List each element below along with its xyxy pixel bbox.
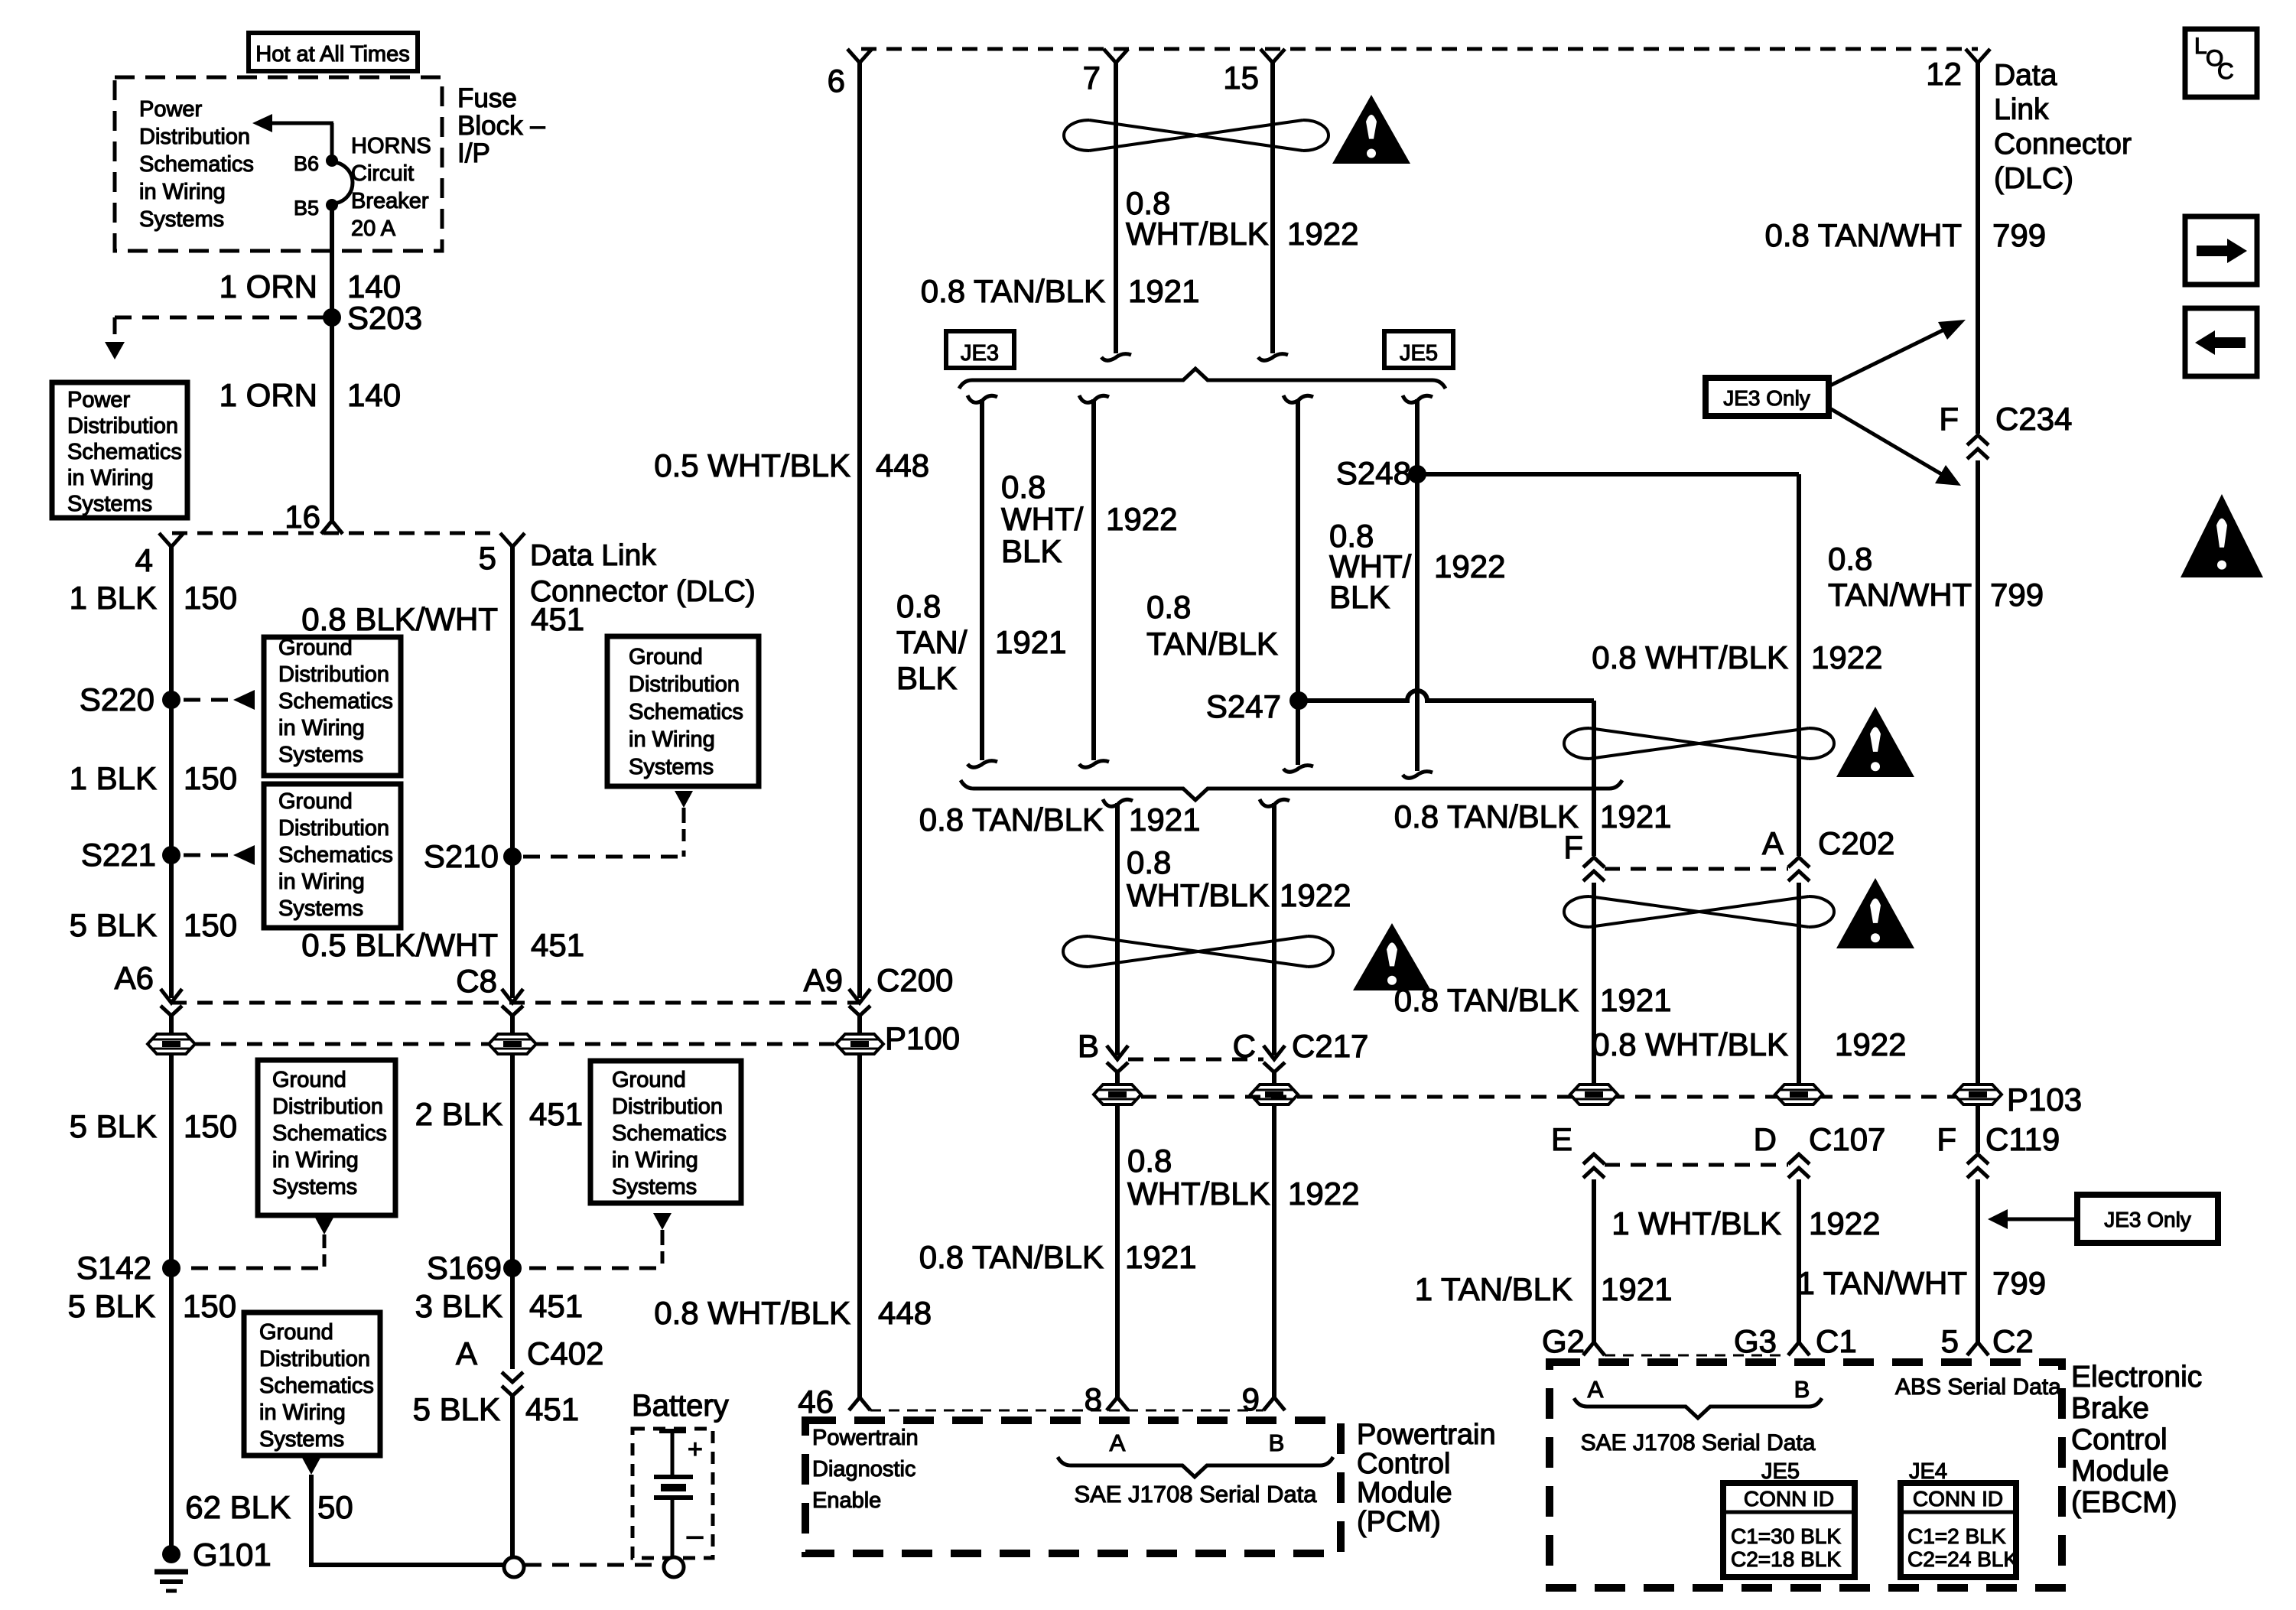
wire: D below C107 to EBCM G3 xyxy=(1797,1179,1801,1343)
svg-text:Distribution: Distribution xyxy=(278,816,389,841)
dashed link to S169 xyxy=(661,1251,665,1268)
svg-text:1921: 1921 xyxy=(1125,1239,1196,1275)
svg-text:C107: C107 xyxy=(1809,1121,1885,1157)
svg-text:0.8 WHT/BLK: 0.8 WHT/BLK xyxy=(654,1295,850,1331)
svg-text:in Wiring: in Wiring xyxy=(272,1148,359,1173)
svg-text:Ground: Ground xyxy=(259,1320,333,1345)
splice S169 xyxy=(503,1259,522,1277)
splice S248 xyxy=(1408,465,1426,483)
callout box: JE3 Only (right) xyxy=(2077,1195,2218,1243)
svg-text:TAN/BLK: TAN/BLK xyxy=(1146,626,1278,662)
wire: dashed from S220 to ground ref xyxy=(184,698,229,702)
pass-through line P100 (dashed) xyxy=(195,1042,860,1046)
splice pack JE5 label box xyxy=(1384,331,1453,368)
svg-text:A: A xyxy=(1762,825,1784,861)
svg-text:0.8 BLK/WHT: 0.8 BLK/WHT xyxy=(301,601,498,637)
component box: Powertrain Control Module (dashed) xyxy=(805,1420,1341,1553)
svg-text:0.8: 0.8 xyxy=(1127,844,1171,880)
svg-text:140: 140 xyxy=(347,377,401,413)
svg-text:451: 451 xyxy=(525,1391,579,1427)
svg-text:1922: 1922 xyxy=(1811,639,1882,675)
svg-text:Schematics: Schematics xyxy=(272,1121,387,1146)
pin 9 connector at PCM xyxy=(1263,1397,1285,1410)
warning symbol (B/C) xyxy=(1353,923,1431,990)
twisted pair symbol (E/D below C202) xyxy=(1589,896,1809,927)
warning symbol (above C202) xyxy=(1836,707,1914,777)
connector C217 pin C arrow xyxy=(1263,1046,1285,1059)
ground G101 xyxy=(162,1545,180,1563)
connector C200 pin A6 arrow xyxy=(161,989,182,1003)
svg-text:Systems: Systems xyxy=(629,755,714,779)
terminal B5 dot xyxy=(326,199,338,211)
svg-text:in Wiring: in Wiring xyxy=(259,1400,346,1425)
svg-text:0.8 TAN/BLK: 0.8 TAN/BLK xyxy=(921,273,1105,309)
svg-text:BLK: BLK xyxy=(1329,579,1390,615)
svg-text:7: 7 xyxy=(1083,60,1101,96)
svg-text:in Wiring: in Wiring xyxy=(67,466,154,490)
svg-text:S169: S169 xyxy=(427,1250,502,1286)
svg-text:C202: C202 xyxy=(1818,825,1894,861)
svg-text:Module: Module xyxy=(1357,1477,1452,1509)
wire: 1 ORN 140 from B5 down to pin 16 xyxy=(330,205,334,523)
svg-text:Schematics: Schematics xyxy=(67,440,182,464)
svg-text:S247: S247 xyxy=(1206,688,1281,724)
svg-text:in Wiring: in Wiring xyxy=(629,727,715,752)
svg-text:C1=30 BLK: C1=30 BLK xyxy=(1731,1524,1841,1548)
svg-text:Powertrain: Powertrain xyxy=(1357,1419,1496,1451)
svg-text:C: C xyxy=(2217,59,2234,84)
svg-text:0.8 TAN/BLK: 0.8 TAN/BLK xyxy=(919,1239,1104,1275)
pin 7 receptacle Y xyxy=(1104,49,1128,63)
dashed wire: junction to battery negative xyxy=(525,1563,661,1567)
svg-text:G101: G101 xyxy=(193,1537,272,1573)
svg-text:E: E xyxy=(1551,1121,1572,1157)
svg-text:0.8 WHT/BLK: 0.8 WHT/BLK xyxy=(1592,1026,1788,1062)
wire: D below C202 xyxy=(1797,883,1801,1085)
svg-text:1921: 1921 xyxy=(1600,982,1671,1018)
svg-text:5 BLK: 5 BLK xyxy=(70,907,157,943)
svg-text:Systems: Systems xyxy=(612,1175,697,1199)
connector C402 (double chevron) xyxy=(502,1372,523,1382)
svg-text:C1: C1 xyxy=(1816,1323,1857,1359)
reference box: Ground Distribution Schematics (2) xyxy=(264,784,401,928)
svg-text:B: B xyxy=(1269,1429,1285,1456)
hook: sub-wire 3 top xyxy=(1283,395,1313,402)
hook: sub-wire 1 top xyxy=(968,395,997,402)
arrow: into S220 (points left) xyxy=(233,690,255,710)
svg-text:SAE J1708 Serial Data: SAE J1708 Serial Data xyxy=(1581,1430,1816,1456)
callout arrow down to wire below C234 xyxy=(1829,408,1944,476)
svg-text:62 BLK: 62 BLK xyxy=(185,1489,291,1525)
splice S142 xyxy=(162,1259,180,1277)
connector C234 chevrons xyxy=(1967,435,1989,445)
svg-text:Powertrain: Powertrain xyxy=(812,1426,919,1450)
svg-text:150: 150 xyxy=(184,580,237,616)
splice pack bus brace (bottom) xyxy=(961,780,1622,800)
svg-text:S220: S220 xyxy=(80,681,154,717)
connector C202 chevrons (E) xyxy=(1583,857,1605,867)
svg-text:0.8: 0.8 xyxy=(896,588,941,624)
svg-text:Power: Power xyxy=(67,388,131,412)
svg-text:1922: 1922 xyxy=(1287,216,1358,252)
svg-text:Block –: Block – xyxy=(457,111,545,141)
svg-text:in Wiring: in Wiring xyxy=(612,1148,698,1173)
arrow: from ground ref box 4 down xyxy=(675,791,693,808)
svg-text:Distribution: Distribution xyxy=(278,662,389,687)
svg-text:9: 9 xyxy=(1242,1381,1260,1417)
svg-text:5: 5 xyxy=(1941,1323,1959,1359)
svg-text:1921: 1921 xyxy=(995,624,1066,660)
battery symbol xyxy=(659,1429,686,1433)
svg-text:Schematics: Schematics xyxy=(629,700,743,724)
pin 46 connector at PCM xyxy=(849,1397,870,1410)
brace: SAE J1708 pins (EBCM) xyxy=(1574,1398,1822,1418)
svg-text:451: 451 xyxy=(529,1096,583,1132)
pin G3 connector at EBCM xyxy=(1788,1342,1810,1355)
svg-text:Distribution: Distribution xyxy=(259,1347,370,1371)
svg-text:451: 451 xyxy=(529,1288,583,1324)
connector line C202 (dashed) xyxy=(1605,867,1788,871)
svg-text:Data: Data xyxy=(1994,59,2057,92)
hook: wire 7 end xyxy=(1101,354,1131,361)
hook: sub-wire 2 top xyxy=(1079,395,1109,402)
connector line PCM pins (thin dashed) xyxy=(870,1410,1263,1412)
svg-text:BLK: BLK xyxy=(1001,533,1062,569)
wire: B below C217 xyxy=(1115,1072,1120,1398)
connector C217 pin B arrow xyxy=(1107,1046,1128,1059)
svg-text:JE3 Only: JE3 Only xyxy=(2104,1208,2191,1231)
svg-text:Schematics: Schematics xyxy=(139,152,254,177)
svg-text:1922: 1922 xyxy=(1280,877,1351,913)
svg-text:Fuse: Fuse xyxy=(457,83,517,113)
wire: S248 tap to right (1922) xyxy=(1417,472,1799,476)
connector line C200 (dashed) xyxy=(171,1001,860,1005)
pass-through P103 grommet on F wire xyxy=(1954,1085,2002,1104)
svg-text:4: 4 xyxy=(135,542,153,578)
svg-text:Systems: Systems xyxy=(139,207,224,232)
svg-text:Schematics: Schematics xyxy=(278,843,393,867)
wire: S247 tap to right with crossover hop at JE5-B wire xyxy=(1299,691,1594,701)
svg-text:Breaker: Breaker xyxy=(351,189,429,213)
arrow: from ground ref box 5 down xyxy=(653,1213,672,1230)
svg-text:1 ORN: 1 ORN xyxy=(220,377,317,413)
arrow: into S221 (points left) xyxy=(233,845,255,865)
pass-through P100 grommet on pin6 wire xyxy=(836,1034,883,1054)
svg-text:2 BLK: 2 BLK xyxy=(415,1096,502,1132)
svg-text:Systems: Systems xyxy=(278,743,363,767)
svg-text:Circuit: Circuit xyxy=(351,161,414,186)
svg-text:CONN ID: CONN ID xyxy=(1744,1487,1834,1511)
svg-text:C200: C200 xyxy=(876,962,953,998)
svg-text:1922: 1922 xyxy=(1288,1176,1359,1212)
svg-text:A9: A9 xyxy=(804,962,843,998)
wire: pin 15 down to splice pack xyxy=(1270,63,1275,353)
svg-text:C1=2 BLK: C1=2 BLK xyxy=(1907,1524,2006,1548)
svg-text:5: 5 xyxy=(479,540,496,576)
hook: B wire top xyxy=(1103,799,1133,806)
svg-text:Schematics: Schematics xyxy=(612,1121,727,1146)
arrow: from ground ref box 6 down xyxy=(302,1458,320,1475)
pass-through grommet on C wire xyxy=(1250,1085,1298,1104)
svg-text:16: 16 xyxy=(285,499,320,535)
connector C107 chevrons (E) xyxy=(1583,1154,1605,1164)
arrow: from ground ref box 3 down xyxy=(315,1218,333,1234)
svg-text:C402: C402 xyxy=(527,1335,603,1371)
svg-text:799: 799 xyxy=(1992,217,2046,253)
svg-text:150: 150 xyxy=(184,760,237,796)
svg-text:0.8 TAN/BLK: 0.8 TAN/BLK xyxy=(1394,798,1579,834)
svg-text:C234: C234 xyxy=(1995,401,2072,437)
hook: sub-wire 2 bottom xyxy=(1079,761,1109,768)
svg-text:A6: A6 xyxy=(115,960,154,996)
svg-text:C8: C8 xyxy=(456,963,497,999)
svg-text:C217: C217 xyxy=(1292,1028,1368,1064)
pass-through grommet on B wire xyxy=(1094,1085,1141,1104)
wire stub below ground ref 3 xyxy=(323,1234,327,1248)
svg-text:Battery: Battery xyxy=(632,1389,729,1423)
pass-through P103 grommet on E wire xyxy=(1570,1085,1618,1104)
wire: 1 TAN/WHT 799 to EBCM xyxy=(1976,1179,1980,1343)
svg-text:150: 150 xyxy=(184,1108,237,1144)
svg-text:1922: 1922 xyxy=(1434,548,1505,584)
svg-text:1 TAN/BLK: 1 TAN/BLK xyxy=(1415,1271,1572,1307)
wire: 0.8 TAN/BLK 1921 (JE3 A) xyxy=(980,399,984,760)
brace: SAE J1708 pins (PCM) xyxy=(1058,1457,1333,1477)
callout box: JE3 Only (top) xyxy=(1706,378,1829,416)
wire: C below C217 xyxy=(1272,1072,1276,1398)
dashed link to S210 xyxy=(682,829,686,857)
svg-text:0.8: 0.8 xyxy=(1146,589,1191,625)
svg-text:(PCM): (PCM) xyxy=(1357,1506,1441,1538)
legend: warning symbol xyxy=(2181,494,2263,577)
svg-text:Link: Link xyxy=(1994,93,2049,126)
svg-text:Schematics: Schematics xyxy=(278,689,393,714)
svg-text:Data Link: Data Link xyxy=(530,539,656,572)
pass-through line P103 (dashed) xyxy=(1141,1095,1978,1099)
svg-text:Enable: Enable xyxy=(812,1488,881,1513)
svg-text:1921: 1921 xyxy=(1600,798,1671,834)
wire: horizontal to Power Distribution arrow xyxy=(268,122,333,125)
dashed link to S142 xyxy=(323,1254,327,1268)
splice S247 xyxy=(1289,691,1308,710)
svg-text:1922: 1922 xyxy=(1106,501,1177,537)
svg-text:in Wiring: in Wiring xyxy=(278,870,365,894)
svg-text:Distribution: Distribution xyxy=(629,672,740,697)
svg-text:Electronic: Electronic xyxy=(2071,1361,2202,1394)
wire: F below P103 xyxy=(1976,1105,1980,1153)
svg-text:Ground: Ground xyxy=(272,1068,346,1092)
wire: D drop from S248 to C202 xyxy=(1797,474,1801,856)
svg-text:Systems: Systems xyxy=(272,1175,357,1199)
splice S203 xyxy=(323,308,341,327)
wire: dashed branch from S203 to power distribution ref xyxy=(115,316,324,320)
svg-text:A: A xyxy=(1110,1429,1126,1456)
table: JE4 CONN ID xyxy=(1901,1483,2016,1577)
svg-text:451: 451 xyxy=(531,601,584,637)
svg-text:Hot at All Times: Hot at All Times xyxy=(255,42,409,67)
circuit breaker: HORNS Circuit Breaker 20 A (arc) xyxy=(332,162,353,203)
wire: 62 BLK 50 down and right to junction xyxy=(311,1475,504,1565)
wire: pin 7 down to splice pack xyxy=(1114,63,1118,353)
callout arrow up to wire above C234 xyxy=(1829,327,1949,386)
svg-text:448: 448 xyxy=(876,447,929,483)
svg-text:F: F xyxy=(1563,829,1583,865)
svg-text:Systems: Systems xyxy=(259,1427,344,1452)
svg-text:TAN/WHT: TAN/WHT xyxy=(1828,577,1972,613)
svg-text:0.8: 0.8 xyxy=(1001,469,1046,505)
svg-text:5 BLK: 5 BLK xyxy=(413,1391,500,1427)
svg-text:5 BLK: 5 BLK xyxy=(70,1108,157,1144)
svg-text:HORNS: HORNS xyxy=(351,134,431,158)
svg-text:C2=18 BLK: C2=18 BLK xyxy=(1731,1547,1841,1571)
svg-text:Brake: Brake xyxy=(2071,1392,2149,1425)
twisted pair symbol (B/C) xyxy=(1088,936,1308,967)
splice S220 xyxy=(162,691,180,709)
svg-text:Ground: Ground xyxy=(278,789,353,814)
svg-text:A: A xyxy=(456,1335,477,1371)
reference box: Ground Distribution Schematics (6, bottom) xyxy=(244,1312,380,1456)
callout arrow to F wire xyxy=(2005,1218,2077,1221)
wire: breaker feed up from B6 to arrow xyxy=(330,123,334,158)
svg-text:WHT/: WHT/ xyxy=(1001,501,1084,537)
svg-text:B: B xyxy=(1794,1376,1810,1403)
svg-text:451: 451 xyxy=(531,927,584,963)
wire: 0.8 TAN/BLK 1921 (JE5 A) xyxy=(1296,399,1300,765)
wire: 1 BLK 150 pin4 down to A6 (C200) xyxy=(169,547,174,998)
wire: 0.8 TAN/WHT 799 pin12 to C234 xyxy=(1976,63,1980,434)
svg-text:6: 6 xyxy=(828,63,845,99)
svg-text:I/P: I/P xyxy=(457,138,490,168)
connector C200 pin A9 arrow xyxy=(849,989,870,1003)
wire: E below C107 to EBCM G2 xyxy=(1592,1179,1596,1343)
svg-text:B6: B6 xyxy=(294,152,319,175)
svg-text:Power: Power xyxy=(139,97,203,122)
svg-text:0.8: 0.8 xyxy=(1828,541,1872,577)
terminal: battery negative open circle xyxy=(664,1557,684,1577)
svg-text:0.8 TAN/BLK: 0.8 TAN/BLK xyxy=(919,802,1104,838)
reference box: Ground Distribution Schematics (4, right of pin 5) xyxy=(607,636,759,786)
twisted pair symbol (E/D above C202) xyxy=(1589,728,1809,759)
wire: 0.5 WHT/BLK 448 pin6 to C200 xyxy=(857,63,862,998)
svg-text:Connector: Connector xyxy=(1994,128,2132,161)
svg-text:JE3 Only: JE3 Only xyxy=(1723,386,1810,410)
svg-text:0.5 WHT/BLK: 0.5 WHT/BLK xyxy=(654,447,850,483)
pin 12 receptacle Y xyxy=(1966,49,1990,63)
svg-text:Ground: Ground xyxy=(278,636,353,660)
svg-text:Systems: Systems xyxy=(278,896,363,921)
svg-text:12: 12 xyxy=(1926,56,1962,92)
reference box: Power Distribution Schematics in Wiring Systems xyxy=(52,382,187,518)
svg-text:20 A: 20 A xyxy=(351,216,396,241)
pin 6 receptacle Y xyxy=(847,49,872,63)
component box: Electronic Brake Control Module (dashed) xyxy=(1550,1362,2062,1588)
pass-through P100 grommet on pin5 wire xyxy=(489,1034,536,1054)
svg-text:1921: 1921 xyxy=(1601,1271,1672,1307)
component box: Fuse Block - I/P (dashed) xyxy=(115,77,442,251)
svg-text:Module: Module xyxy=(2071,1455,2169,1488)
svg-text:Ground: Ground xyxy=(629,645,703,669)
svg-text:CONN ID: CONN ID xyxy=(1913,1487,2003,1511)
svg-text:P103: P103 xyxy=(2007,1081,2082,1117)
splice pack bus brace (top) xyxy=(959,369,1446,389)
wire: 5 BLK 451 below C402 xyxy=(510,1397,515,1557)
junction: open circle at battery feed xyxy=(504,1557,524,1577)
connector C202 chevrons (D) xyxy=(1788,857,1810,867)
table: JE5 CONN ID xyxy=(1723,1483,1855,1577)
wire stub below ground ref 5 xyxy=(661,1230,665,1245)
svg-text:C119: C119 xyxy=(1985,1121,2060,1157)
svg-text:G2: G2 xyxy=(1542,1323,1585,1359)
wire: 0.8 TAN/WHT 799 below C234 xyxy=(1976,460,1980,1085)
pass-through P103 grommet on D wire xyxy=(1775,1085,1823,1104)
svg-text:–: – xyxy=(687,1520,704,1552)
connector C107 chevrons (D) xyxy=(1788,1154,1810,1164)
svg-text:B5: B5 xyxy=(294,197,319,220)
svg-text:Distribution: Distribution xyxy=(67,414,178,438)
hook: sub-wire 3 bottom xyxy=(1283,766,1313,772)
pin 8 connector at PCM xyxy=(1107,1397,1128,1410)
connector line C107 (dashed) xyxy=(1605,1163,1788,1167)
svg-text:3 BLK: 3 BLK xyxy=(415,1288,502,1324)
reference box: Ground Distribution Schematics (3) xyxy=(258,1060,395,1215)
svg-text:Control: Control xyxy=(2071,1423,2168,1456)
arrow: down to Power Distribution Schematics box xyxy=(105,342,125,359)
svg-text:(EBCM): (EBCM) xyxy=(2071,1486,2177,1519)
wire: dashed from S221 to ground ref xyxy=(184,854,229,857)
svg-text:46: 46 xyxy=(798,1384,834,1420)
svg-text:Control: Control xyxy=(1357,1448,1451,1480)
reference box: Ground Distribution Schematics (1) xyxy=(264,637,401,776)
svg-text:TAN/: TAN/ xyxy=(896,624,968,660)
wire: 5 BLK below C200 xyxy=(169,1016,174,1554)
pin 16 connector (inverted Y) at DLC line xyxy=(321,521,343,534)
component edge: Data Link Connector (top, dashed) xyxy=(861,47,1978,51)
svg-text:in Wiring: in Wiring xyxy=(278,716,365,740)
svg-text:Distribution: Distribution xyxy=(139,125,250,149)
svg-text:Distribution: Distribution xyxy=(612,1094,723,1119)
wire: E below C202 xyxy=(1592,883,1596,1085)
hook: sub-wire 4 bottom xyxy=(1403,772,1433,779)
svg-text:(DLC): (DLC) xyxy=(1994,162,2073,195)
svg-text:SAE J1708 Serial Data: SAE J1708 Serial Data xyxy=(1074,1481,1317,1508)
connector line EBCM pins (thin dashed) xyxy=(1605,1355,1788,1357)
wire: 0.8 WHT/BLK 1922 (JE3 B) xyxy=(1091,399,1096,760)
svg-text:P100: P100 xyxy=(885,1020,960,1056)
svg-text:Distribution: Distribution xyxy=(272,1094,383,1119)
svg-text:+: + xyxy=(688,1435,703,1464)
pin 15 receptacle Y xyxy=(1260,49,1285,63)
component box: Battery (dashed) xyxy=(633,1429,713,1558)
svg-text:G3: G3 xyxy=(1734,1323,1777,1359)
svg-text:1 BLK: 1 BLK xyxy=(70,760,157,796)
legend: LOC box xyxy=(2185,29,2257,97)
svg-text:BLK: BLK xyxy=(896,660,957,696)
svg-text:1 ORN: 1 ORN xyxy=(220,268,317,304)
svg-text:JE3: JE3 xyxy=(961,341,999,366)
twisted pair symbol (pins 7/15) xyxy=(1089,120,1303,151)
wire: 0.8 WHT/BLK 1922 (JE5 B) xyxy=(1415,399,1420,771)
pin 5 receptacle Y xyxy=(500,533,525,547)
splice S221 xyxy=(162,846,180,864)
legend: right arrow box xyxy=(2185,216,2257,285)
svg-text:1 BLK: 1 BLK xyxy=(70,580,157,616)
svg-text:799: 799 xyxy=(1990,577,2044,613)
wire stub below ground ref 4 xyxy=(682,808,686,823)
pin 5 connector at EBCM xyxy=(1967,1342,1989,1355)
svg-text:C2=24 BLK: C2=24 BLK xyxy=(1907,1547,2018,1571)
reference box: Ground Distribution Schematics (5, center) xyxy=(590,1061,741,1203)
svg-text:0.8 TAN/WHT: 0.8 TAN/WHT xyxy=(1765,217,1962,253)
